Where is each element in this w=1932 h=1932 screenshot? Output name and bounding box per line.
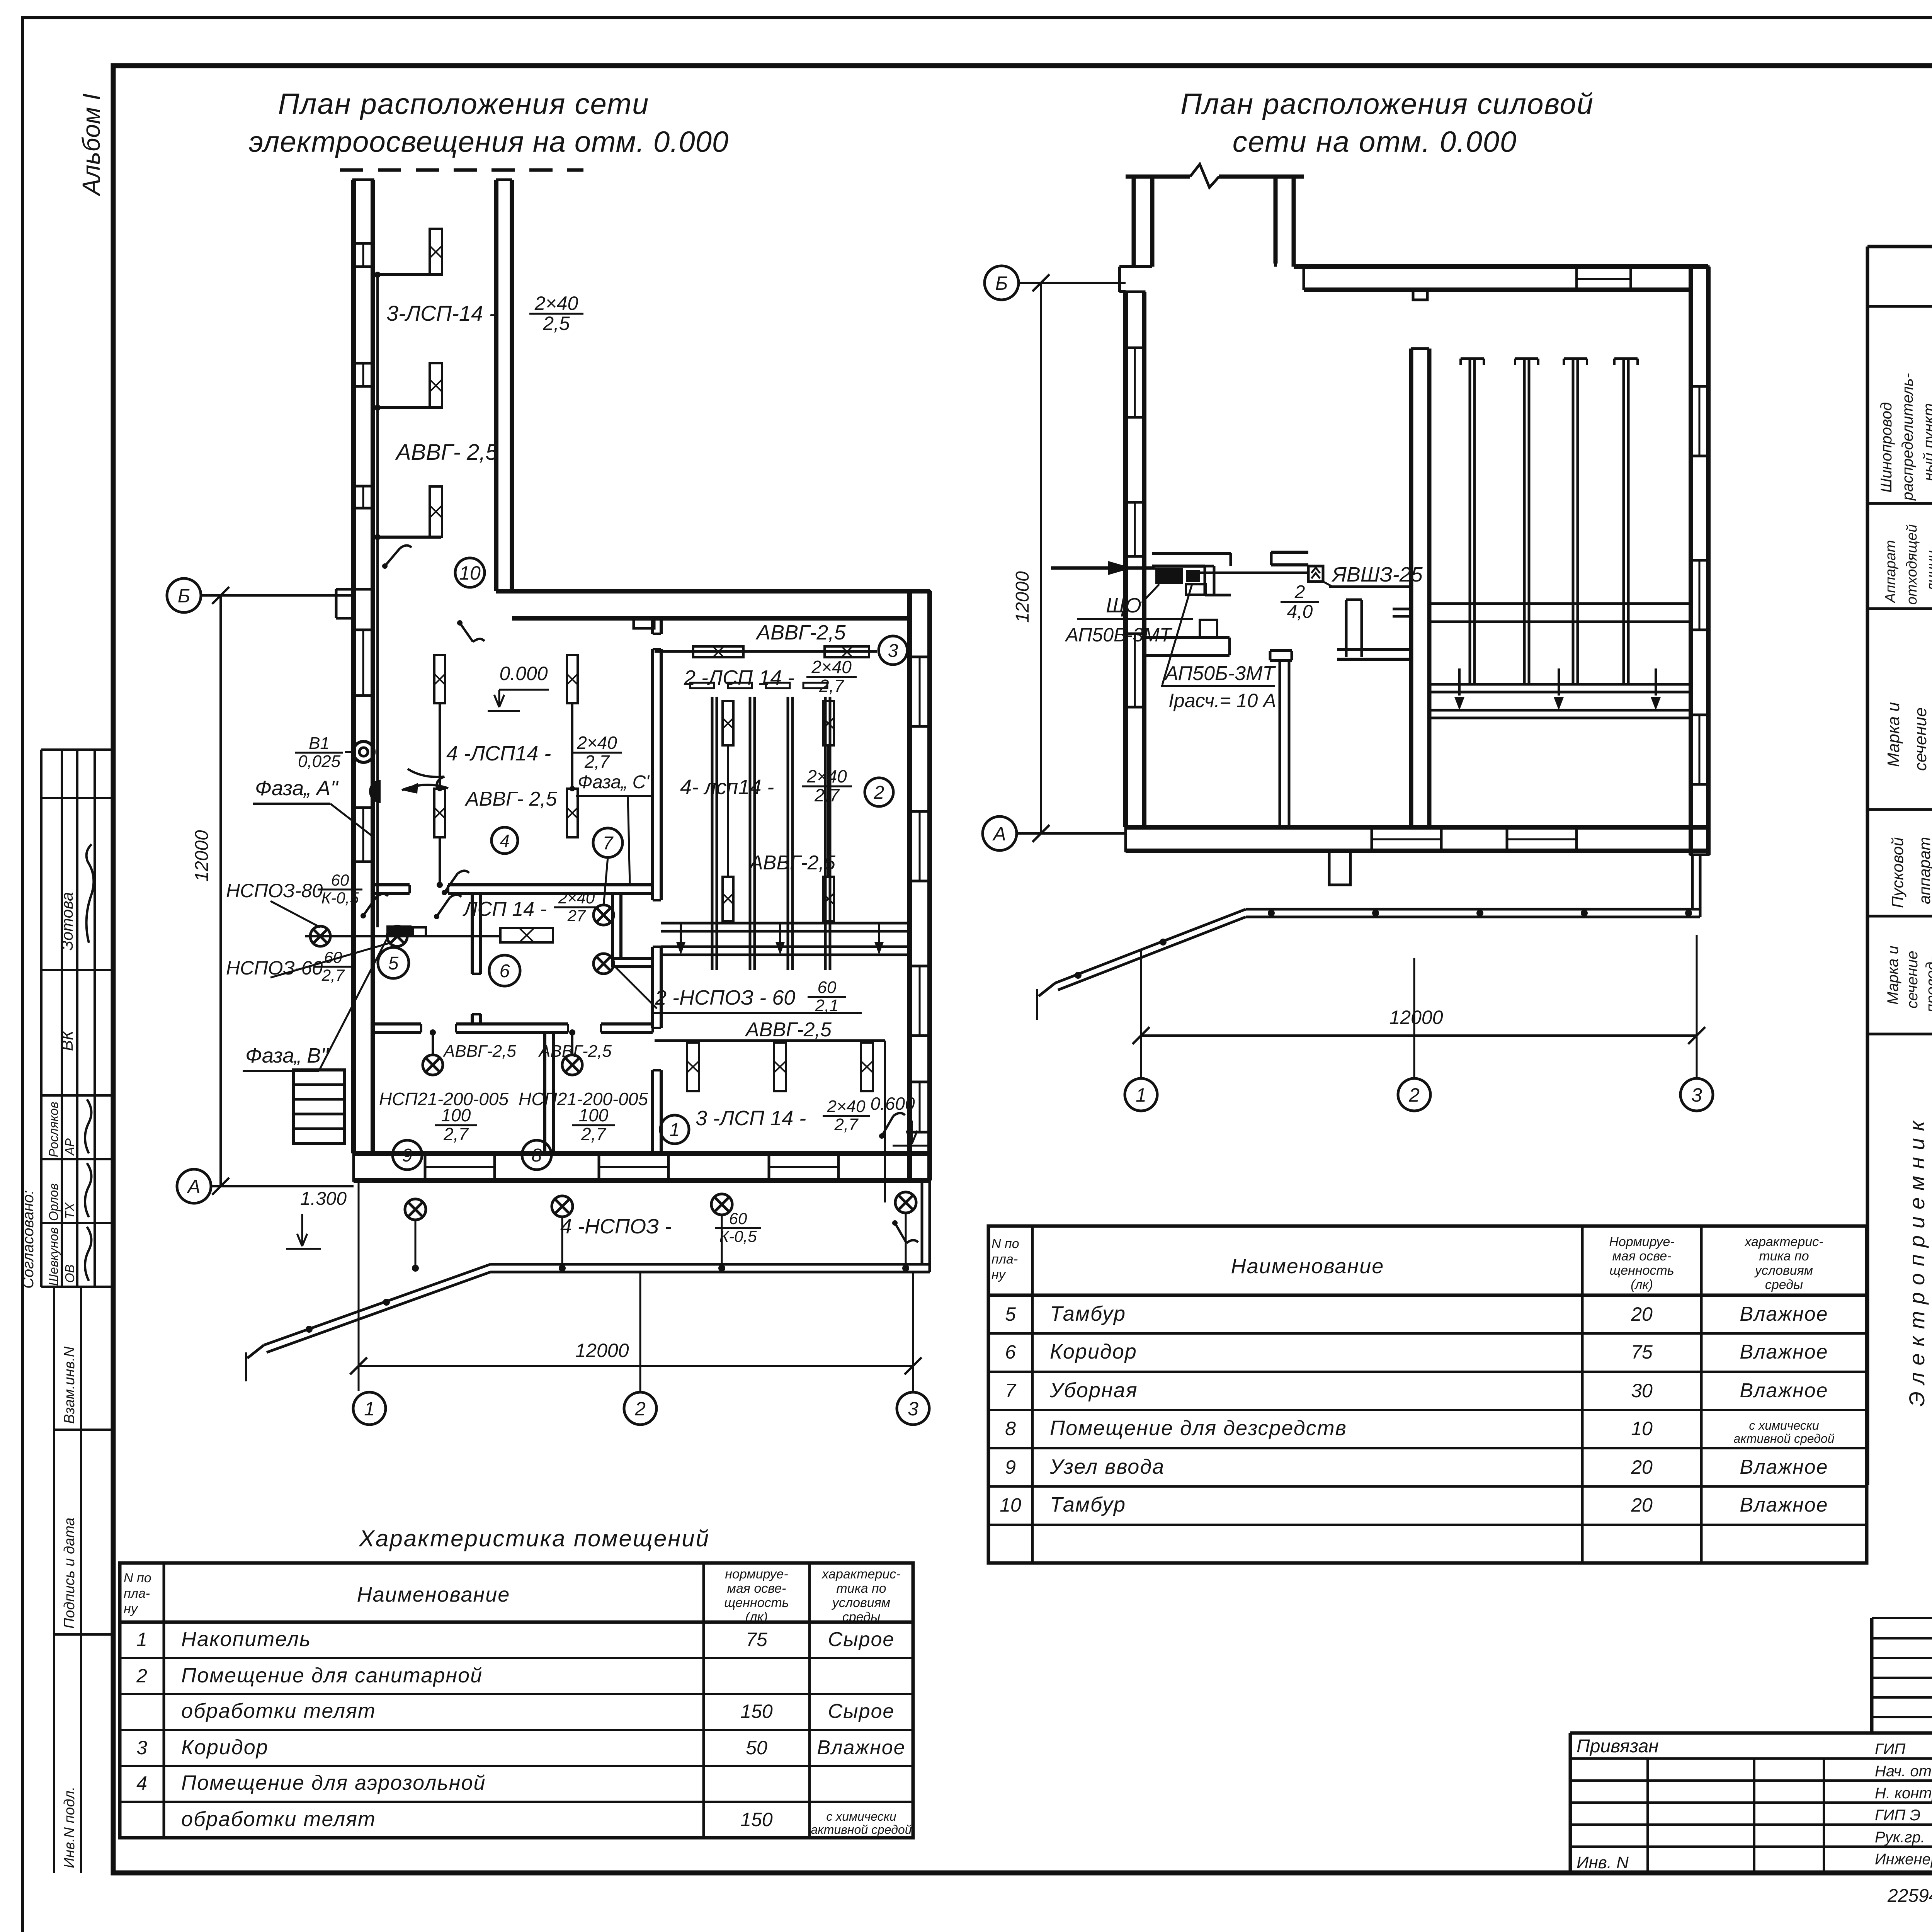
svg-text:отходящей: отходящей bbox=[1904, 524, 1920, 605]
inner wall vertical bbox=[1409, 349, 1413, 827]
toilet lamps room 7 bbox=[594, 905, 614, 925]
svg-text:пла-: пла- bbox=[992, 1252, 1018, 1267]
svg-text:27: 27 bbox=[567, 906, 586, 925]
svg-text:обработки телят: обработки телят bbox=[181, 1699, 376, 1723]
svg-text:8: 8 bbox=[1005, 1418, 1016, 1439]
trough arrow plan2 bbox=[1655, 668, 1657, 696]
pen top cap bbox=[1515, 357, 1538, 360]
room table 5-10 outline bbox=[988, 1226, 1867, 1563]
partition rooms 9-8 bbox=[543, 1032, 546, 1153]
svg-text:Альбом I: Альбом I bbox=[77, 93, 105, 197]
svg-text:22594-01: 22594-01 bbox=[1887, 1886, 1932, 1906]
svg-text:АП50Б-3МТ: АП50Б-3МТ bbox=[1164, 662, 1276, 685]
svg-text:щенность: щенность bbox=[1609, 1263, 1674, 1278]
svg-text:2,7: 2,7 bbox=[819, 676, 844, 696]
column circle 2 bbox=[624, 1392, 656, 1425]
feeder dots bbox=[412, 1265, 419, 1272]
svg-text:Инв.N подл.: Инв.N подл. bbox=[61, 1786, 78, 1868]
svg-text:электроосвещения на отм. 0.0: электроосвещения на отм. 0.000 bbox=[249, 126, 729, 158]
luminaires room 4 bbox=[434, 655, 445, 703]
svg-text:АВВГ- 2,5: АВВГ- 2,5 bbox=[395, 440, 498, 465]
svg-text:20: 20 bbox=[1631, 1456, 1653, 1478]
svg-text:Наименование: Наименование bbox=[357, 1583, 510, 1606]
svg-text:2: 2 bbox=[136, 1665, 147, 1687]
room circle 8 bbox=[522, 1140, 551, 1170]
svg-text:2: 2 bbox=[634, 1398, 646, 1420]
svg-text:Узел ввода: Узел ввода bbox=[1049, 1455, 1165, 1478]
room circle 1 bbox=[660, 1115, 689, 1144]
junction dots rooms 9-8 bbox=[430, 1029, 436, 1036]
svg-text:с химически: с химически bbox=[826, 1810, 896, 1823]
svg-text:сети на отм. 0.000: сети на отм. 0.000 bbox=[1233, 126, 1517, 158]
row circle A bbox=[177, 1169, 211, 1203]
bottom dimension line bbox=[358, 1180, 360, 1391]
svg-text:Сырое: Сырое bbox=[828, 1700, 895, 1723]
calf pens plan2 bbox=[1469, 359, 1471, 684]
svg-text:ЯВШЗ-25: ЯВШЗ-25 bbox=[1331, 563, 1423, 586]
north wall notch bbox=[1413, 290, 1427, 300]
svg-text:20: 20 bbox=[1631, 1303, 1653, 1325]
svg-text:0,025: 0,025 bbox=[298, 752, 341, 771]
svg-text:1: 1 bbox=[1136, 1084, 1146, 1106]
svg-text:Помещение для аэрозольной: Помещение для аэрозольной bbox=[181, 1771, 486, 1794]
room circle 2 bbox=[865, 778, 893, 806]
svg-text:(лк): (лк) bbox=[1631, 1277, 1653, 1292]
south rooms walls notch bbox=[1200, 620, 1217, 638]
svg-text:2×40: 2×40 bbox=[558, 889, 595, 907]
svg-text:АВВГ-2,5: АВВГ-2,5 bbox=[755, 621, 846, 644]
svg-text:2 -ЛСП 14 -: 2 -ЛСП 14 - bbox=[684, 666, 794, 689]
wire to YaVSh bbox=[1200, 571, 1308, 574]
svg-text:Шинопровод: Шинопровод bbox=[1878, 402, 1895, 493]
svg-text:7: 7 bbox=[603, 833, 614, 854]
room circle 3 bbox=[879, 636, 907, 665]
svg-text:N по: N по bbox=[124, 1571, 151, 1585]
svg-text:Нормируе-: Нормируе- bbox=[1609, 1235, 1674, 1249]
entry feeder line bbox=[1051, 566, 1155, 570]
svg-text:2,7: 2,7 bbox=[443, 1124, 469, 1144]
svg-text:60: 60 bbox=[729, 1209, 747, 1228]
ramp end line bbox=[247, 1345, 264, 1358]
luminaires 2-LSP14 top bbox=[693, 646, 743, 657]
room table 5-10 grid bbox=[988, 1294, 1867, 1297]
svg-text:Привязан: Привязан bbox=[1577, 1736, 1659, 1757]
column circle 2 plan2 bbox=[1398, 1078, 1430, 1111]
trough arrow bbox=[878, 923, 880, 943]
trough arrow bbox=[680, 923, 682, 943]
svg-text:Iрасч.= 10 А: Iрасч.= 10 А bbox=[1168, 690, 1276, 711]
svg-text:с химически: с химически bbox=[1749, 1418, 1819, 1432]
wires room 2 bbox=[727, 745, 729, 877]
luminaires 3-LSP14 room 1 bbox=[687, 1043, 699, 1091]
wall notch bbox=[634, 618, 654, 628]
svg-text:АП50Б-3МТ: АП50Б-3МТ bbox=[1065, 624, 1173, 646]
room 4 south partition bbox=[373, 883, 410, 886]
outdoor lamps row bbox=[405, 1199, 426, 1220]
feed table rows bbox=[1867, 305, 1932, 308]
svg-text:Влажное: Влажное bbox=[1740, 1379, 1828, 1402]
stamp lower section bbox=[53, 1287, 55, 1873]
svg-text:Влажное: Влажное bbox=[1740, 1303, 1828, 1325]
svg-text:5: 5 bbox=[1005, 1303, 1016, 1325]
svg-text:ный пункт: ный пункт bbox=[1920, 403, 1932, 481]
ShchO board bbox=[386, 925, 412, 937]
svg-text:3: 3 bbox=[1691, 1084, 1702, 1106]
tambour upper west wall bbox=[1132, 177, 1136, 267]
left stamp table bbox=[40, 750, 43, 1287]
svg-text:2×40: 2×40 bbox=[811, 657, 852, 677]
svg-text:12000: 12000 bbox=[1389, 1007, 1443, 1028]
svg-text:1: 1 bbox=[670, 1120, 680, 1140]
leader to toilet lamps bbox=[614, 966, 657, 1009]
svg-text:ОВ: ОВ bbox=[63, 1264, 77, 1283]
svg-text:ВК: ВК bbox=[58, 1030, 76, 1051]
room circle 4 bbox=[492, 827, 518, 854]
svg-text:4 -ЛСП14 -: 4 -ЛСП14 - bbox=[446, 742, 551, 765]
svg-text:ГИП Э: ГИП Э bbox=[1875, 1807, 1920, 1824]
room circle 10 bbox=[455, 558, 485, 587]
svg-text:Тамбур: Тамбур bbox=[1050, 1493, 1126, 1516]
svg-text:Фаза„ А": Фаза„ А" bbox=[255, 777, 339, 800]
svg-text:условиям: условиям bbox=[832, 1595, 890, 1610]
title block main rows bbox=[1570, 1731, 1932, 1735]
south porch notch bbox=[1329, 851, 1350, 885]
svg-text:ну: ну bbox=[992, 1267, 1006, 1282]
feeder dots plan2 bbox=[1268, 910, 1275, 917]
svg-text:7: 7 bbox=[1005, 1380, 1017, 1401]
svg-text:10: 10 bbox=[1631, 1418, 1653, 1439]
YaVShZ-25 symbol plan2 bbox=[1308, 566, 1323, 582]
svg-text:2: 2 bbox=[1408, 1084, 1420, 1106]
svg-text:Согласовано:: Согласовано: bbox=[20, 1190, 37, 1289]
curved arrow near fan bbox=[402, 785, 448, 790]
wires rooms 9-8 bbox=[432, 1032, 434, 1055]
svg-text:распределитель-: распределитель- bbox=[1899, 373, 1916, 501]
svg-text:Инженер: Инженер bbox=[1875, 1851, 1932, 1868]
svg-text:Б: Б bbox=[178, 585, 190, 607]
south room T pillar bbox=[1270, 649, 1292, 652]
svg-text:характерис-: характерис- bbox=[821, 1567, 900, 1582]
svg-text:активной средой: активной средой bbox=[811, 1823, 912, 1837]
svg-text:12000: 12000 bbox=[192, 830, 212, 882]
svg-text:9: 9 bbox=[1005, 1456, 1016, 1478]
fan circle bbox=[353, 742, 374, 762]
lamp room 8 bbox=[562, 1055, 582, 1075]
svg-text:Марка и: Марка и bbox=[1884, 702, 1903, 767]
north wall main bbox=[1294, 264, 1708, 269]
svg-text:Инв. N: Инв. N bbox=[1577, 1853, 1629, 1872]
svg-text:3: 3 bbox=[136, 1737, 147, 1759]
stamp approver signatures bbox=[85, 1099, 91, 1153]
svg-text:75: 75 bbox=[746, 1629, 767, 1650]
svg-text:АР: АР bbox=[63, 1138, 77, 1156]
svg-text:АВВГ-2,5: АВВГ-2,5 bbox=[538, 1042, 612, 1061]
svg-text:6: 6 bbox=[500, 961, 510, 981]
tambour upper east wall bbox=[1274, 177, 1278, 264]
svg-text:3 -ЛСП 14 -: 3 -ЛСП 14 - bbox=[696, 1107, 806, 1130]
east wall bbox=[907, 591, 912, 1180]
feeding trough room 2 bbox=[661, 922, 910, 925]
svg-text:0.600: 0.600 bbox=[870, 1094, 915, 1114]
svg-text:100: 100 bbox=[441, 1105, 471, 1125]
luminaire 3-LSP-14 group in tambour bbox=[430, 229, 442, 275]
svg-text:4: 4 bbox=[136, 1772, 147, 1794]
svg-text:2 -НСПОЗ - 60: 2 -НСПОЗ - 60 bbox=[655, 986, 795, 1009]
svg-text:аппарат: аппарат bbox=[1915, 837, 1932, 904]
svg-text:4,0: 4,0 bbox=[1287, 602, 1313, 622]
svg-text:4- лсп14 -: 4- лсп14 - bbox=[680, 776, 774, 799]
svg-text:К-0,5: К-0,5 bbox=[321, 889, 359, 907]
svg-text:2×40: 2×40 bbox=[827, 1097, 866, 1116]
title block small upper table bbox=[1872, 1617, 1932, 1619]
wires room 4 bbox=[439, 703, 441, 789]
feeding trough plan2 bbox=[1429, 683, 1691, 686]
svg-text:9: 9 bbox=[402, 1145, 413, 1166]
svg-text:среды: среды bbox=[842, 1610, 880, 1624]
svg-text:Помещение для санитарной: Помещение для санитарной bbox=[181, 1664, 483, 1687]
svg-text:60: 60 bbox=[331, 871, 349, 889]
vertical dimension plan2 bbox=[1040, 283, 1042, 833]
luminaires room 2 mid bbox=[723, 701, 733, 745]
row circle B bbox=[167, 578, 201, 612]
svg-text:щенность: щенность bbox=[724, 1595, 789, 1610]
svg-text:Н. контр.: Н. контр. bbox=[1875, 1785, 1932, 1802]
svg-text:АВВГ-2,5: АВВГ-2,5 bbox=[745, 1019, 832, 1041]
corridor wire bbox=[305, 935, 500, 937]
svg-text:20: 20 bbox=[1631, 1494, 1653, 1516]
switch near tambour exit bbox=[385, 545, 412, 566]
west wall main bbox=[351, 589, 356, 1153]
switch room 4 bbox=[444, 871, 469, 893]
wire junction dots room 4 bbox=[437, 882, 443, 888]
svg-text:Тамбур: Тамбур bbox=[1050, 1302, 1126, 1325]
wire junction dots tambour bbox=[374, 272, 381, 278]
svg-text:обработки телят: обработки телят bbox=[181, 1808, 376, 1831]
room table 1-4 outline bbox=[120, 1563, 913, 1838]
outdoor feeder with dots plan2 bbox=[1246, 908, 1700, 911]
corridor luminaire LSP14 bbox=[500, 928, 553, 942]
svg-text:линии: линии bbox=[1924, 550, 1932, 592]
svg-text:2: 2 bbox=[1294, 582, 1305, 602]
trough arrow bbox=[779, 923, 781, 943]
room circle 5 bbox=[378, 947, 409, 978]
column circle 3 plan2 bbox=[1680, 1078, 1713, 1111]
svg-text:Подпись и дата: Подпись и дата bbox=[61, 1518, 78, 1629]
tambour west wall bbox=[351, 180, 356, 589]
svg-text:12000: 12000 bbox=[1012, 571, 1033, 623]
svg-text:Влажное: Влажное bbox=[1740, 1341, 1828, 1363]
tambour east wall bbox=[494, 180, 498, 591]
fan black semicircle bbox=[369, 780, 381, 803]
svg-text:ГИП: ГИП bbox=[1875, 1741, 1906, 1758]
svg-text:среды: среды bbox=[1765, 1277, 1803, 1292]
pen top cap bbox=[1461, 357, 1484, 360]
wire room 1 bbox=[655, 1039, 885, 1042]
svg-text:План расположения силовой: План расположения силовой bbox=[1180, 88, 1594, 121]
svg-text:2×40: 2×40 bbox=[577, 733, 617, 753]
svg-text:активной средой: активной средой bbox=[1733, 1432, 1834, 1446]
left extension columns bbox=[1646, 1759, 1649, 1873]
svg-text:Помещение для дезсредств: Помещение для дезсредств bbox=[1050, 1417, 1347, 1440]
leader lines to corridor lamps bbox=[270, 901, 320, 927]
svg-text:4: 4 bbox=[500, 831, 510, 851]
svg-text:тика по: тика по bbox=[1759, 1249, 1809, 1264]
wire stub to luminaire bbox=[378, 273, 441, 276]
svg-text:Фаза„ С": Фаза„ С" bbox=[578, 772, 653, 793]
partition rooms 2-1 west bbox=[651, 618, 654, 634]
plan 1 cut dashed line bbox=[340, 168, 583, 172]
svg-text:2,7: 2,7 bbox=[834, 1115, 859, 1134]
svg-text:Влажное: Влажное bbox=[1740, 1456, 1828, 1478]
row circle A plan2 bbox=[983, 816, 1017, 850]
trough arrow plan2 bbox=[1558, 668, 1560, 696]
svg-text:10: 10 bbox=[459, 562, 481, 584]
pen top cap bbox=[1564, 357, 1587, 360]
svg-text:тика по: тика по bbox=[836, 1581, 886, 1596]
svg-text:2,7: 2,7 bbox=[321, 966, 345, 984]
ShchO boxes plan2 bbox=[1155, 568, 1183, 584]
vestibule stub walls bbox=[1205, 565, 1214, 568]
east wall plan2 bbox=[1689, 267, 1693, 855]
svg-text:сечение: сечение bbox=[1904, 951, 1921, 1009]
svg-text:5: 5 bbox=[388, 953, 399, 974]
lamp room 9 bbox=[423, 1055, 443, 1075]
south wall bbox=[354, 1151, 930, 1156]
door stub bbox=[1393, 608, 1410, 611]
svg-text:Росляков: Росляков bbox=[46, 1102, 61, 1157]
svg-text:В1: В1 bbox=[309, 734, 330, 753]
svg-text:Коридор: Коридор bbox=[1050, 1340, 1137, 1363]
svg-text:6: 6 bbox=[1005, 1341, 1016, 1363]
svg-text:А: А bbox=[992, 823, 1006, 845]
svg-text:НСПОЗ-80: НСПОЗ-80 bbox=[226, 880, 323, 901]
column circle 1 bbox=[353, 1392, 386, 1425]
svg-text:2,7: 2,7 bbox=[584, 752, 610, 772]
svg-text:Пусковой: Пусковой bbox=[1888, 837, 1906, 908]
wire stub to luminaire bbox=[378, 406, 441, 409]
svg-text:АВВГ-2,5: АВВГ-2,5 bbox=[748, 852, 836, 874]
wire top room 2 bbox=[655, 650, 877, 653]
room circle 7 bbox=[593, 828, 622, 857]
partition rooms 9-8 north bbox=[373, 1022, 421, 1026]
svg-text:Фаза„ В": Фаза„ В" bbox=[245, 1044, 329, 1067]
svg-text:3: 3 bbox=[908, 1398, 918, 1420]
svg-text:150: 150 bbox=[740, 1701, 773, 1722]
svg-text:Рук.гр.: Рук.гр. bbox=[1875, 1829, 1925, 1846]
svg-text:характерис-: характерис- bbox=[1744, 1235, 1823, 1249]
vestibule walls near ShchO bbox=[1152, 552, 1231, 555]
outdoor feeder line bbox=[490, 1263, 930, 1266]
svg-text:ну: ну bbox=[124, 1602, 138, 1616]
svg-text:Влажное: Влажное bbox=[817, 1736, 905, 1759]
svg-text:АВВГ- 2,5: АВВГ- 2,5 bbox=[464, 788, 557, 810]
room table 1-4 grid bbox=[120, 1621, 913, 1624]
svg-text:А: А bbox=[186, 1176, 200, 1197]
svg-text:100: 100 bbox=[579, 1105, 609, 1125]
trough arrow plan2 bbox=[1458, 668, 1461, 696]
north wall window bbox=[1575, 267, 1578, 290]
svg-text:Аппарат: Аппарат bbox=[1883, 540, 1899, 604]
svg-text:АВВГ-2,5: АВВГ-2,5 bbox=[442, 1042, 516, 1061]
svg-text:1.300: 1.300 bbox=[300, 1189, 347, 1209]
callout AP50B lower plan2 bbox=[1162, 584, 1192, 685]
svg-text:2,7: 2,7 bbox=[581, 1124, 606, 1144]
svg-text:Коридор: Коридор bbox=[181, 1736, 269, 1759]
ramp end plan2 bbox=[1039, 983, 1055, 996]
svg-text:1: 1 bbox=[136, 1629, 147, 1650]
row circle B plan2 bbox=[985, 266, 1019, 300]
svg-text:Характеристика помещений: Характеристика помещений bbox=[358, 1526, 710, 1551]
svg-text:Уборная: Уборная bbox=[1049, 1379, 1138, 1402]
feed table outline bbox=[1867, 245, 1932, 248]
leader from circle 7 bbox=[604, 857, 608, 906]
svg-text:50: 50 bbox=[746, 1737, 767, 1759]
corridor lamps bbox=[310, 926, 330, 946]
svg-text:ТХ: ТХ bbox=[63, 1202, 77, 1219]
svg-text:мая осве-: мая осве- bbox=[727, 1581, 786, 1596]
svg-text:сечение: сечение bbox=[1911, 707, 1930, 771]
svg-text:30: 30 bbox=[1631, 1380, 1653, 1401]
svg-text:(лк): (лк) bbox=[745, 1610, 768, 1624]
south-east room walls bbox=[1345, 600, 1348, 657]
svg-text:8: 8 bbox=[532, 1145, 542, 1166]
pen top stubs bbox=[690, 683, 714, 688]
svg-text:1: 1 bbox=[364, 1398, 375, 1420]
column circle 3 bbox=[897, 1392, 929, 1425]
room circle 6 bbox=[489, 955, 520, 986]
svg-text:Сырое: Сырое bbox=[828, 1628, 895, 1651]
west wall porch jog bbox=[336, 588, 354, 591]
svg-text:150: 150 bbox=[740, 1809, 773, 1830]
svg-text:3-ЛСП-14 -: 3-ЛСП-14 - bbox=[386, 301, 496, 325]
wire stub to luminaire bbox=[378, 536, 441, 539]
column circle 1 plan2 bbox=[1125, 1078, 1157, 1111]
svg-text:3: 3 bbox=[888, 641, 898, 661]
svg-text:10: 10 bbox=[1000, 1494, 1021, 1516]
svg-text:75: 75 bbox=[1631, 1341, 1653, 1363]
toilet partition h bbox=[612, 957, 653, 960]
svg-text:ЛСП 14 -: ЛСП 14 - bbox=[463, 898, 547, 920]
tambour step walls bbox=[1119, 265, 1152, 268]
svg-text:Взам.инв.N: Взам.инв.N bbox=[61, 1346, 78, 1424]
svg-text:План расположения сети: План расположения сети bbox=[278, 88, 650, 121]
wire drop through south wall bbox=[884, 1041, 886, 1202]
svg-text:мая осве-: мая осве- bbox=[1612, 1249, 1672, 1264]
svg-text:нормируе-: нормируе- bbox=[725, 1567, 788, 1582]
svg-text:пла-: пла- bbox=[124, 1586, 150, 1601]
svg-text:К-0,5: К-0,5 bbox=[719, 1227, 757, 1245]
feeder drops to lamps bbox=[415, 1220, 417, 1268]
bottom dimension plan2 bbox=[1140, 951, 1142, 1078]
svg-text:Марка и: Марка и bbox=[1884, 946, 1901, 1005]
svg-text:N по: N по bbox=[992, 1236, 1019, 1251]
svg-text:2: 2 bbox=[874, 782, 884, 803]
south room partition stem bbox=[1279, 660, 1281, 827]
svg-text:2×40: 2×40 bbox=[534, 293, 578, 314]
svg-text:условиям: условиям bbox=[1754, 1263, 1813, 1278]
south wall plan2 bbox=[1126, 825, 1708, 830]
svg-text:2,5: 2,5 bbox=[543, 313, 570, 334]
calf pen partitions room 2 bbox=[711, 697, 714, 970]
plan 2 top break line bbox=[1126, 175, 1190, 179]
outdoor staircase bbox=[294, 1070, 345, 1143]
toilet partition v bbox=[611, 893, 614, 958]
svg-text:2×40: 2×40 bbox=[806, 766, 847, 786]
svg-text:Наименование: Наименование bbox=[1231, 1255, 1384, 1278]
svg-text:Б: Б bbox=[995, 272, 1008, 294]
svg-text:провод-: провод- bbox=[1923, 957, 1932, 1012]
room circle 9 bbox=[393, 1140, 422, 1170]
